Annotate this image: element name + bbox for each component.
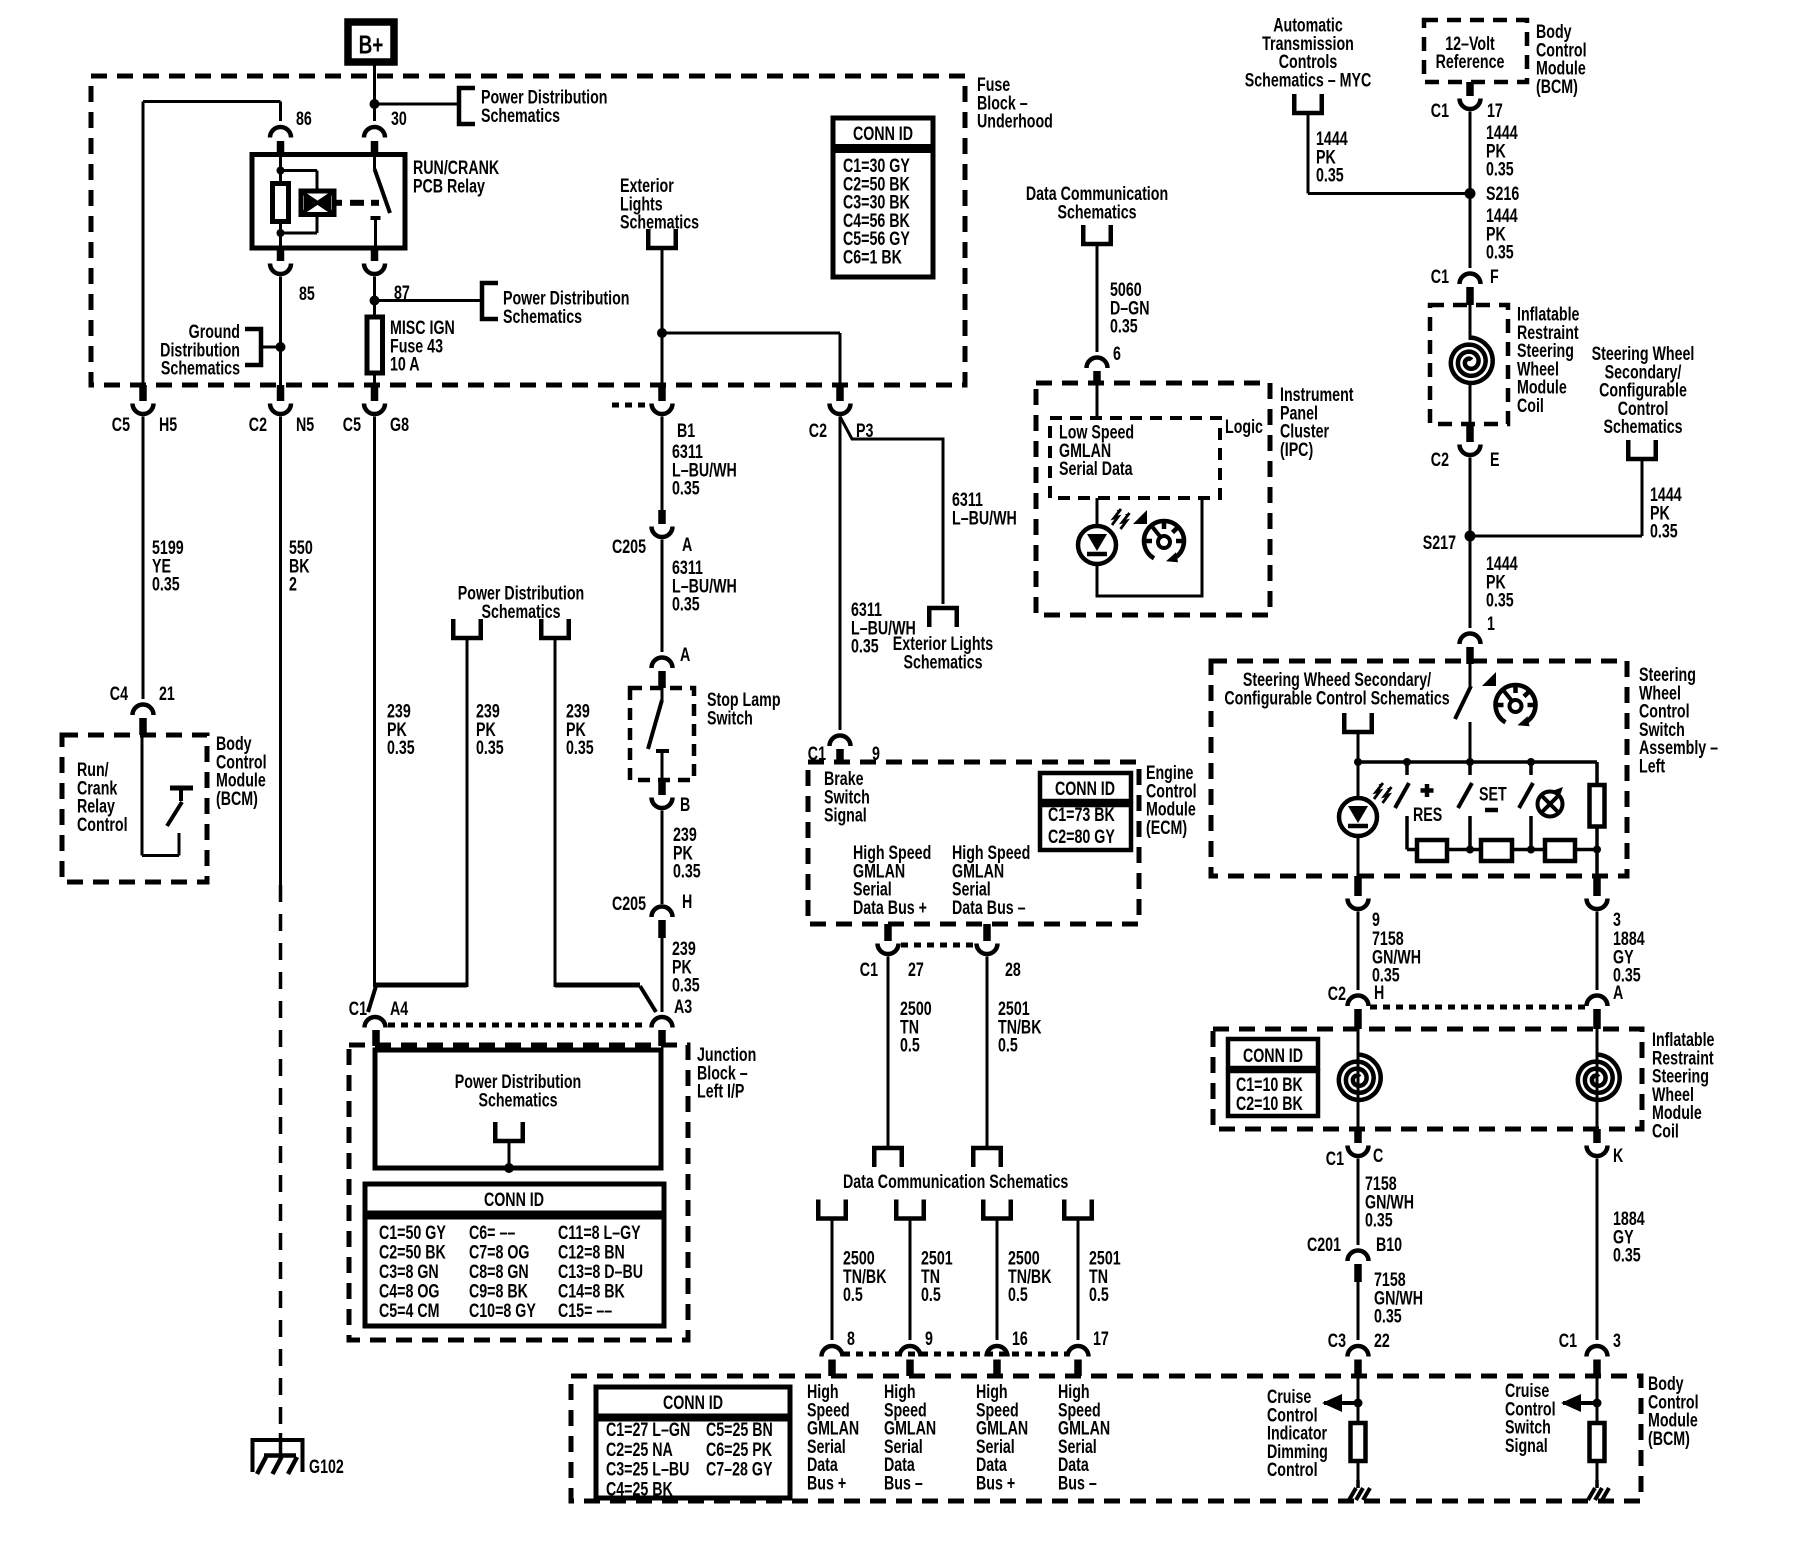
svg-text:0.35: 0.35 bbox=[851, 635, 879, 657]
svg-text:A4: A4 bbox=[390, 998, 409, 1020]
svg-text:CONN ID: CONN ID bbox=[853, 123, 913, 145]
off-page bracket data comm to BCM 2 bbox=[896, 1200, 924, 1219]
stop lamp switch blade bbox=[661, 688, 664, 700]
svg-text:0.35: 0.35 bbox=[1486, 589, 1514, 611]
svg-text:C2=80 GY: C2=80 GY bbox=[1048, 826, 1115, 848]
dotted boundary H-A bbox=[1370, 1005, 1585, 1010]
wire 7158 GN/WH 3 bbox=[1357, 1282, 1360, 1340]
LED return wire bbox=[1097, 498, 1202, 596]
svg-text:A: A bbox=[1613, 982, 1623, 1004]
svg-text:0.5: 0.5 bbox=[843, 1284, 863, 1306]
flag arrow IPC bbox=[1133, 510, 1147, 524]
svg-text:1: 1 bbox=[1487, 613, 1495, 635]
off-page bracket feed 2 bbox=[541, 619, 569, 638]
pin 85 connector bbox=[277, 248, 285, 261]
svg-text:0.35: 0.35 bbox=[1613, 1244, 1641, 1266]
svg-text:85: 85 bbox=[299, 283, 315, 305]
svg-text:Schematics: Schematics bbox=[478, 1089, 557, 1111]
svg-text:2: 2 bbox=[289, 573, 297, 595]
svg-text:Data Communication Schematics: Data Communication Schematics bbox=[843, 1171, 1068, 1193]
connector A3 dome bbox=[652, 1017, 673, 1027]
svg-text:17: 17 bbox=[1487, 100, 1503, 122]
wire 6311 to stop lamp switch bbox=[661, 540, 664, 653]
svg-text:CONN ID: CONN ID bbox=[663, 1392, 723, 1414]
wire 2501 TN/BK bbox=[986, 957, 989, 1147]
wire 7158 GN/WH 2 bbox=[1357, 1159, 1360, 1246]
connector C205 A bbox=[658, 510, 666, 524]
wire 87 down / fuse bbox=[373, 277, 376, 318]
svg-text:0.35: 0.35 bbox=[1650, 520, 1678, 542]
BCM internal switch bbox=[141, 735, 144, 856]
BCM pin 9 connector bbox=[900, 1346, 921, 1357]
svg-text:CONN ID: CONN ID bbox=[484, 1189, 544, 1211]
svg-text:0.35: 0.35 bbox=[476, 737, 504, 759]
connector C205 H bbox=[652, 907, 673, 918]
connector C5 G8 bbox=[371, 385, 379, 401]
pin K connector bbox=[1593, 1129, 1601, 1143]
svg-text:(BCM): (BCM) bbox=[1536, 76, 1578, 98]
svg-text:9: 9 bbox=[925, 1328, 933, 1350]
off-page bracket Power Distribution Schematics bbox=[459, 88, 475, 124]
battery feed B+ box bbox=[348, 22, 394, 62]
svg-text:Bus –: Bus – bbox=[884, 1472, 923, 1494]
wire G8 down to junction block bbox=[373, 417, 376, 988]
svg-text:Schematics: Schematics bbox=[1603, 416, 1682, 438]
wire P3 to exterior lights ref bbox=[840, 417, 943, 605]
svg-text:C4=8 OG: C4=8 OG bbox=[379, 1280, 440, 1302]
wire 1444 PK to S216 bbox=[1307, 113, 1310, 194]
connector C1 A4 bbox=[365, 1017, 386, 1027]
svg-text:C10=8 GY: C10=8 GY bbox=[469, 1300, 536, 1322]
svg-text:C12=8 BN: C12=8 BN bbox=[558, 1241, 625, 1263]
svg-text:3: 3 bbox=[1613, 1330, 1621, 1352]
svg-text:0.5: 0.5 bbox=[921, 1284, 941, 1306]
connector B1 bbox=[658, 385, 666, 401]
svg-text:0.35: 0.35 bbox=[673, 860, 701, 882]
Fuse Block - Underhood dashed box bbox=[91, 76, 965, 385]
svg-text:C2: C2 bbox=[809, 420, 827, 442]
svg-text:H: H bbox=[682, 891, 692, 913]
wire to power distribution ref bbox=[375, 103, 458, 106]
svg-text:C2=10 BK: C2=10 BK bbox=[1236, 1093, 1303, 1115]
svg-text:Switch: Switch bbox=[707, 707, 753, 729]
svg-text:0.35: 0.35 bbox=[1486, 158, 1514, 180]
svg-text:C3: C3 bbox=[1328, 1330, 1346, 1352]
svg-text:C5: C5 bbox=[343, 414, 362, 436]
solenoid X-box bbox=[301, 191, 334, 215]
svg-text:0.35: 0.35 bbox=[1374, 1305, 1402, 1327]
connector C1 9 ECM bbox=[830, 736, 851, 746]
svg-text:B+: B+ bbox=[359, 30, 384, 60]
svg-text:Schematics: Schematics bbox=[503, 306, 582, 328]
connector C5 H5 bbox=[139, 385, 147, 401]
svg-text:Signal: Signal bbox=[1505, 1435, 1548, 1457]
wire 239 PK below switch bbox=[661, 811, 664, 905]
junction U right bbox=[555, 983, 640, 988]
wire into logic bbox=[1096, 385, 1099, 418]
pin 30 connector bbox=[364, 127, 385, 137]
svg-text:0.5: 0.5 bbox=[1008, 1284, 1028, 1306]
junction bbox=[370, 99, 380, 109]
svg-text:27: 27 bbox=[908, 959, 924, 981]
svg-text:28: 28 bbox=[1005, 959, 1021, 981]
svg-text:Control: Control bbox=[1267, 1459, 1318, 1481]
connector C4 21 bbox=[133, 705, 154, 716]
connector C2 E bbox=[1466, 424, 1474, 442]
Steering Wheel Control Switch Assembly dashed box bbox=[1211, 661, 1627, 876]
svg-text:C9=8 BK: C9=8 BK bbox=[469, 1280, 528, 1302]
connector B bbox=[658, 780, 666, 795]
pin 87 connector bbox=[371, 248, 379, 261]
off-page bracket data comm top bbox=[1083, 225, 1111, 244]
ECM pin 28 bbox=[983, 924, 991, 941]
connector 1 bbox=[1460, 634, 1481, 645]
connector C2 H coil bbox=[1348, 996, 1369, 1007]
SET switch bbox=[1468, 762, 1472, 775]
svg-text:C6= ––: C6= –– bbox=[469, 1222, 515, 1244]
ground distribution ref bracket bbox=[245, 329, 261, 365]
svg-text:6: 6 bbox=[1113, 343, 1121, 365]
svg-text:Underhood: Underhood bbox=[977, 110, 1053, 132]
Inflatable Restraint coil box 2 bbox=[1213, 1029, 1642, 1129]
RES switch bbox=[1405, 762, 1409, 775]
relay RUN/CRANK PCB Relay box bbox=[252, 155, 405, 249]
svg-text:0.35: 0.35 bbox=[1110, 315, 1138, 337]
svg-text:10 A: 10 A bbox=[390, 353, 420, 375]
wire 2500 TN/BK c bbox=[996, 1219, 999, 1341]
svg-text:Schematics: Schematics bbox=[481, 105, 560, 127]
ECM dashed box bbox=[808, 762, 1139, 924]
svg-text:16: 16 bbox=[1012, 1328, 1028, 1350]
LED IPC bbox=[1078, 526, 1116, 564]
cruise control switch signal branch bbox=[1596, 1377, 1599, 1423]
svg-text:L–BU/WH: L–BU/WH bbox=[952, 507, 1017, 529]
svg-text:C1=27 L–GN: C1=27 L–GN bbox=[606, 1419, 690, 1441]
Logic dashed box bbox=[1050, 418, 1220, 498]
wire 7158 GN/WH bbox=[1357, 912, 1360, 991]
svg-text:Data Bus +: Data Bus + bbox=[853, 897, 927, 919]
svg-text:Schematics: Schematics bbox=[903, 651, 982, 673]
Stop Lamp Switch box bbox=[630, 688, 694, 780]
svg-text:G8: G8 bbox=[390, 414, 409, 436]
12-Volt Reference dashed box bbox=[1424, 20, 1527, 82]
off-page bracket ATC bbox=[1294, 94, 1322, 113]
svg-text:Configurable Control Schematic: Configurable Control Schematics bbox=[1224, 687, 1449, 709]
svg-text:C1: C1 bbox=[860, 959, 879, 981]
svg-text:Schematics: Schematics bbox=[1057, 201, 1136, 223]
svg-text:(ECM): (ECM) bbox=[1146, 817, 1187, 839]
svg-text:C4: C4 bbox=[110, 683, 129, 705]
svg-text:Schematics: Schematics bbox=[620, 211, 699, 233]
LED indicator steering bbox=[1357, 762, 1360, 798]
svg-text:Schematics – MYC: Schematics – MYC bbox=[1245, 69, 1372, 91]
Inflatable Restraint coil box 1 bbox=[1430, 305, 1508, 424]
BCM pin 16 connector bbox=[987, 1346, 1008, 1357]
right resistor bbox=[1595, 762, 1599, 785]
wire 5199 YE bbox=[142, 417, 145, 700]
off-page bracket inside steering box bbox=[1344, 713, 1372, 732]
wire 6311 from B1 bbox=[661, 417, 664, 511]
wire B+ to relay pin 30 bbox=[373, 65, 376, 121]
solenoid link stub and dash bbox=[334, 200, 342, 206]
svg-text:(BCM): (BCM) bbox=[1648, 1428, 1690, 1450]
svg-text:C201: C201 bbox=[1307, 1234, 1341, 1256]
svg-text:CONN ID: CONN ID bbox=[1243, 1045, 1303, 1067]
junction block inner solid box bbox=[375, 1050, 661, 1168]
connector C2 N5 bbox=[277, 385, 285, 401]
connector A coil bbox=[1587, 996, 1608, 1007]
off-page bracket data comm to BCM 3 bbox=[983, 1200, 1011, 1219]
off-page bracket data comm to BCM 1 bbox=[818, 1200, 846, 1219]
svg-text:0.5: 0.5 bbox=[998, 1034, 1018, 1056]
junction U left bbox=[375, 983, 468, 988]
wire 85 down bbox=[279, 277, 282, 402]
svg-text:F: F bbox=[1490, 266, 1499, 288]
splice S217 bbox=[1465, 531, 1476, 542]
svg-text:C205: C205 bbox=[612, 893, 646, 915]
svg-text:Coil: Coil bbox=[1517, 395, 1544, 417]
off-page bracket feed 1 bbox=[453, 619, 481, 638]
gauge icon IPC bbox=[1144, 521, 1184, 558]
svg-text:0.35: 0.35 bbox=[672, 477, 700, 499]
svg-text:C11=8 L–GY: C11=8 L–GY bbox=[558, 1222, 641, 1244]
svg-text:C7=8 OG: C7=8 OG bbox=[469, 1241, 530, 1263]
bus junction at 1358 bbox=[1354, 758, 1362, 766]
wire 1884 GY 2 bbox=[1596, 1159, 1599, 1341]
ground hatch strokes G102 bbox=[257, 1457, 266, 1474]
wire 550 BK dashed continuation bbox=[279, 885, 283, 1433]
svg-text:PCB Relay: PCB Relay bbox=[413, 175, 485, 197]
wire logic to LED bbox=[1096, 498, 1099, 527]
dotted boundary A4-A3 bbox=[388, 1023, 648, 1028]
svg-text:C1: C1 bbox=[1431, 266, 1450, 288]
wire 239 PK to A3 bbox=[661, 938, 664, 1012]
off-page bracket data comm 2 bbox=[973, 1148, 1001, 1167]
svg-text:C15= ––: C15= –– bbox=[558, 1300, 612, 1322]
relay switch blade bbox=[373, 155, 376, 170]
svg-text:Left: Left bbox=[1639, 755, 1665, 777]
svg-text:Data Bus –: Data Bus – bbox=[952, 897, 1026, 919]
svg-text:K: K bbox=[1613, 1145, 1624, 1167]
svg-text:CONN ID: CONN ID bbox=[1055, 778, 1115, 800]
dotted boundary 27-28 bbox=[901, 943, 975, 948]
wire E to S217 bbox=[1469, 458, 1472, 629]
svg-text:8: 8 bbox=[847, 1328, 855, 1350]
pin 3 connector bbox=[1593, 876, 1601, 896]
Body Control Module BCM dashed box bbox=[571, 1376, 1641, 1501]
svg-text:Bus +: Bus + bbox=[807, 1472, 846, 1494]
svg-text:A: A bbox=[680, 644, 690, 666]
svg-text:C1: C1 bbox=[1431, 100, 1450, 122]
svg-text:86: 86 bbox=[296, 108, 312, 130]
main switch blade bbox=[1469, 664, 1472, 686]
svg-text:RES: RES bbox=[1413, 804, 1442, 826]
junction bbox=[657, 328, 667, 338]
svg-text:Schematics: Schematics bbox=[161, 357, 240, 379]
wire 1444 PK right branch bbox=[1641, 459, 1644, 536]
connector 6 bbox=[1087, 358, 1108, 369]
svg-text:Coil: Coil bbox=[1652, 1120, 1679, 1142]
off-page bracket data comm to BCM 4 bbox=[1064, 1200, 1092, 1219]
bus junction at 1470 bbox=[1466, 758, 1474, 766]
connector C1 17 bbox=[1466, 82, 1474, 96]
svg-text:Serial Data: Serial Data bbox=[1059, 458, 1133, 480]
svg-text:B1: B1 bbox=[677, 420, 696, 442]
svg-text:C: C bbox=[1373, 1145, 1383, 1167]
svg-text:22: 22 bbox=[1374, 1330, 1390, 1352]
relay coil wire bbox=[279, 155, 282, 184]
pin 86 connector bbox=[270, 127, 291, 137]
off-page bracket data comm 1 bbox=[874, 1148, 902, 1167]
connector C2 P3 bbox=[836, 385, 844, 401]
svg-text:C7–28 GY: C7–28 GY bbox=[706, 1458, 773, 1480]
Junction Block - Left I/P dashed box bbox=[349, 1045, 688, 1340]
svg-text:0.35: 0.35 bbox=[1486, 241, 1514, 263]
svg-text:C5: C5 bbox=[112, 414, 131, 436]
svg-text:C205: C205 bbox=[612, 536, 646, 558]
switch bus bbox=[1358, 760, 1597, 764]
resistor ladder bbox=[1407, 848, 1597, 852]
svg-text:(BCM): (BCM) bbox=[216, 788, 258, 810]
svg-text:0.35: 0.35 bbox=[152, 573, 180, 595]
svg-text:17: 17 bbox=[1093, 1328, 1109, 1350]
dotted boundary pins 8-17 bbox=[843, 1352, 1067, 1357]
svg-text:0.35: 0.35 bbox=[1365, 1209, 1393, 1231]
svg-text:C3=8 GN: C3=8 GN bbox=[379, 1261, 439, 1283]
svg-text:0.35: 0.35 bbox=[566, 737, 594, 759]
CONN ID table junction block bbox=[365, 1184, 664, 1213]
clockspring coil 2 right bbox=[1596, 1029, 1599, 1129]
svg-text:C5=4 CM: C5=4 CM bbox=[379, 1300, 439, 1322]
wire 1444 PK bbox=[1469, 112, 1472, 269]
CONN ID table fuse block bbox=[833, 118, 933, 147]
svg-text:B10: B10 bbox=[1376, 1234, 1402, 1256]
wire 2501 TN d bbox=[1077, 1219, 1080, 1341]
BCM pin 17 connector bbox=[1068, 1346, 1089, 1357]
svg-text:C5=25 BN: C5=25 BN bbox=[706, 1419, 773, 1441]
bus junction at 1407 bbox=[1403, 758, 1411, 766]
svg-text:21: 21 bbox=[159, 683, 175, 705]
connector C3 22 bbox=[1348, 1346, 1369, 1357]
svg-text:C6=1 BK: C6=1 BK bbox=[843, 246, 902, 268]
svg-text:Signal: Signal bbox=[824, 804, 867, 826]
connector C1 3 BCM bbox=[1587, 1346, 1608, 1357]
svg-text:Bus –: Bus – bbox=[1058, 1472, 1097, 1494]
CONN ID table coil bbox=[1228, 1039, 1318, 1068]
svg-text:S216: S216 bbox=[1486, 183, 1519, 205]
fuse MISC IGN Fuse 43 10A bbox=[367, 317, 383, 373]
svg-text:0.5: 0.5 bbox=[900, 1034, 920, 1056]
CONN ID table BCM bbox=[596, 1387, 790, 1416]
cancel icon bbox=[1538, 792, 1563, 817]
svg-text:C1: C1 bbox=[349, 998, 368, 1020]
svg-text:C2: C2 bbox=[249, 414, 267, 436]
pin 9 connector bbox=[1354, 876, 1362, 896]
wire 1884 GY bbox=[1596, 912, 1599, 991]
svg-text:Bus +: Bus + bbox=[976, 1472, 1015, 1494]
solenoid branch wires bbox=[281, 169, 318, 172]
wire 239 PK feed2 bbox=[554, 638, 557, 987]
svg-text:Left I/P: Left I/P bbox=[697, 1080, 744, 1102]
splice S216 bbox=[1465, 188, 1476, 199]
clockspring coil 1 bbox=[1469, 305, 1472, 340]
CONN ID table ECM bbox=[1040, 773, 1131, 801]
svg-text:C1: C1 bbox=[1326, 1148, 1345, 1170]
svg-text:0.35: 0.35 bbox=[672, 593, 700, 615]
svg-text:N5: N5 bbox=[296, 414, 315, 436]
svg-text:C13=8 D–BU: C13=8 D–BU bbox=[558, 1261, 643, 1283]
svg-text:S217: S217 bbox=[1423, 532, 1456, 554]
wire 5060 D-GN bbox=[1096, 244, 1099, 352]
gauge icon steering bbox=[1496, 685, 1536, 722]
svg-text:C2: C2 bbox=[1328, 983, 1346, 1005]
svg-text:0.35: 0.35 bbox=[387, 737, 415, 759]
off-page bracket exterior lights 2 bbox=[929, 608, 957, 627]
svg-text:C6=25 PK: C6=25 PK bbox=[706, 1439, 773, 1461]
svg-text:C8=8 GN: C8=8 GN bbox=[469, 1261, 529, 1283]
BCM box Run/Crank Relay Control bbox=[62, 735, 207, 882]
wire 2501 TN b bbox=[909, 1219, 912, 1341]
BCM pin 8 connector bbox=[822, 1346, 843, 1357]
svg-text:E: E bbox=[1490, 449, 1499, 471]
svg-text:(IPC): (IPC) bbox=[1280, 439, 1313, 461]
svg-text:C2: C2 bbox=[1431, 449, 1449, 471]
svg-text:H5: H5 bbox=[159, 414, 178, 436]
wire 550 BK bbox=[279, 417, 282, 886]
ground G102 bbox=[253, 1440, 303, 1472]
cancel switch bbox=[1529, 762, 1533, 775]
connector A stop lamp switch bbox=[652, 658, 673, 669]
svg-text:A3: A3 bbox=[674, 996, 692, 1018]
clockspring coil 2 left bbox=[1357, 1029, 1360, 1129]
svg-text:C2=50 BK: C2=50 BK bbox=[379, 1241, 446, 1263]
off-page bracket inside junction block bbox=[495, 1122, 523, 1141]
svg-text:C3=25 L–BU: C3=25 L–BU bbox=[606, 1458, 689, 1480]
svg-text:0.5: 0.5 bbox=[1089, 1284, 1109, 1306]
svg-text:A: A bbox=[682, 534, 692, 556]
wire 2500 TN bbox=[887, 957, 890, 1147]
wire from 86 up-left bbox=[279, 102, 282, 122]
svg-text:Reference: Reference bbox=[1436, 51, 1505, 73]
svg-text:C14=8 BK: C14=8 BK bbox=[558, 1280, 625, 1302]
svg-text:Control: Control bbox=[77, 814, 128, 836]
relay coil bbox=[273, 184, 289, 222]
off-page bracket SWSC bbox=[1628, 440, 1656, 459]
svg-text:0.35: 0.35 bbox=[1316, 164, 1344, 186]
pin C1 C connector bbox=[1354, 1129, 1362, 1143]
wire coil to pin 85 bbox=[279, 222, 282, 249]
flag arrow bbox=[1482, 672, 1496, 686]
off-page bracket exterior lights bbox=[648, 229, 676, 248]
ECM pin 27 bbox=[884, 924, 892, 941]
connector C1 F bbox=[1460, 274, 1481, 285]
off-page bracket Power Distribution Schematics 2 bbox=[482, 283, 498, 319]
wire 239 PK feed1 bbox=[466, 638, 469, 987]
branch wire to P3 bbox=[662, 332, 840, 335]
wire 6311 P3 to ECM bbox=[839, 417, 842, 731]
cruise control indicator dimming control branch bbox=[1357, 1377, 1360, 1423]
svg-text:B: B bbox=[680, 794, 690, 816]
bus junction at 1531 bbox=[1527, 758, 1535, 766]
junction bbox=[277, 167, 285, 175]
svg-text:C1: C1 bbox=[1559, 1330, 1578, 1352]
dotted connector boundary bbox=[612, 403, 649, 408]
wire down to B1 bbox=[661, 248, 664, 401]
svg-text:0.35: 0.35 bbox=[672, 974, 700, 996]
svg-text:Schematics: Schematics bbox=[481, 601, 560, 623]
svg-text:30: 30 bbox=[391, 108, 407, 130]
svg-text:Logic: Logic bbox=[1225, 416, 1263, 438]
